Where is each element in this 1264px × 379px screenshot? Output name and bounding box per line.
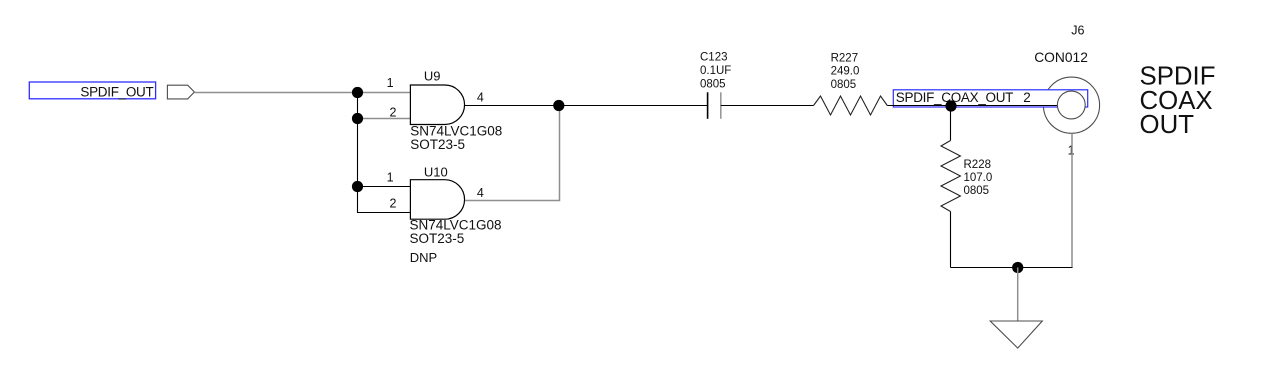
svg-text:SPDIF_OUT: SPDIF_OUT: [80, 85, 153, 100]
svg-text:R227: R227: [831, 52, 859, 64]
wire R228 down to ground rail: [950, 212, 952, 268]
capacitor C123: [700, 52, 731, 119]
svg-text:4: 4: [477, 186, 484, 200]
wire bottom rail: [951, 267, 1073, 269]
ground: [990, 321, 1042, 348]
svg-text:0.1UF: 0.1UF: [700, 65, 731, 77]
resistor R227: [814, 52, 888, 115]
junction dot at U9 pin2: [352, 113, 363, 124]
svg-text:U9: U9: [424, 69, 441, 84]
svg-text:SOT23-5: SOT23-5: [410, 137, 465, 152]
connector J6 center pin circle: [1057, 91, 1085, 119]
connector J6 labels: [1034, 24, 1088, 158]
wire R227 to connector center pin: [887, 105, 1057, 107]
wire junction to C123: [559, 105, 708, 107]
wire junction down to R228: [950, 106, 952, 141]
ground stem: [1017, 268, 1019, 321]
svg-text:1: 1: [1068, 143, 1075, 157]
junction dot at U9/U10 outputs: [553, 100, 564, 111]
svg-text:1: 1: [387, 171, 394, 185]
wire U9 pin2 stub: [358, 118, 411, 120]
svg-text:4: 4: [477, 90, 484, 104]
wire U10 output up to junction: [465, 106, 560, 201]
svg-text:0805: 0805: [700, 79, 726, 91]
node SPDIF COAX OUT title: [1140, 63, 1216, 140]
op-amp U9 AND gate body: [387, 69, 503, 152]
wire U10 pin1 stub: [358, 186, 411, 188]
svg-text:CON012: CON012: [1034, 50, 1088, 65]
svg-text:C123: C123: [700, 52, 728, 64]
wire flag to junction: [194, 92, 357, 94]
svg-text:2: 2: [390, 105, 397, 119]
svg-text:OUT: OUT: [1140, 111, 1195, 139]
svg-text:SOT23-5: SOT23-5: [410, 231, 465, 246]
svg-text:2: 2: [1023, 90, 1031, 105]
off-page flag symbol: [167, 85, 194, 99]
op-amp U10 AND gate body: [387, 164, 502, 265]
svg-text:2: 2: [390, 197, 397, 211]
svg-text:107.0: 107.0: [964, 172, 993, 184]
wire connector pin 1 down: [1071, 133, 1073, 267]
junction dot at flag net / U9 pin1: [352, 87, 363, 98]
wire U9 output to junction: [465, 105, 559, 107]
svg-text:R228: R228: [964, 159, 992, 171]
wire U9 pin1 stub: [358, 92, 411, 94]
resistor R228: [941, 141, 992, 212]
connector J6 outer barrel circle: [1043, 77, 1099, 133]
svg-text:J6: J6: [1071, 24, 1084, 38]
svg-text:DNP: DNP: [410, 250, 437, 265]
junction dot at R228 tap: [945, 100, 956, 111]
svg-text:0805: 0805: [831, 79, 857, 91]
net label SPDIF_OUT box: [29, 82, 155, 100]
junction dot at ground tap: [1012, 262, 1023, 273]
svg-text:U10: U10: [424, 164, 448, 179]
svg-text:0805: 0805: [964, 185, 990, 197]
junction dot at U10 pin1: [352, 181, 363, 192]
net label SPDIF_COAX_OUT box: [893, 90, 1087, 107]
wire vertical bus down to U10: [358, 93, 411, 213]
svg-text:1: 1: [387, 76, 394, 90]
svg-text:249.0: 249.0: [831, 66, 860, 78]
wire C123 to R227: [721, 105, 814, 107]
